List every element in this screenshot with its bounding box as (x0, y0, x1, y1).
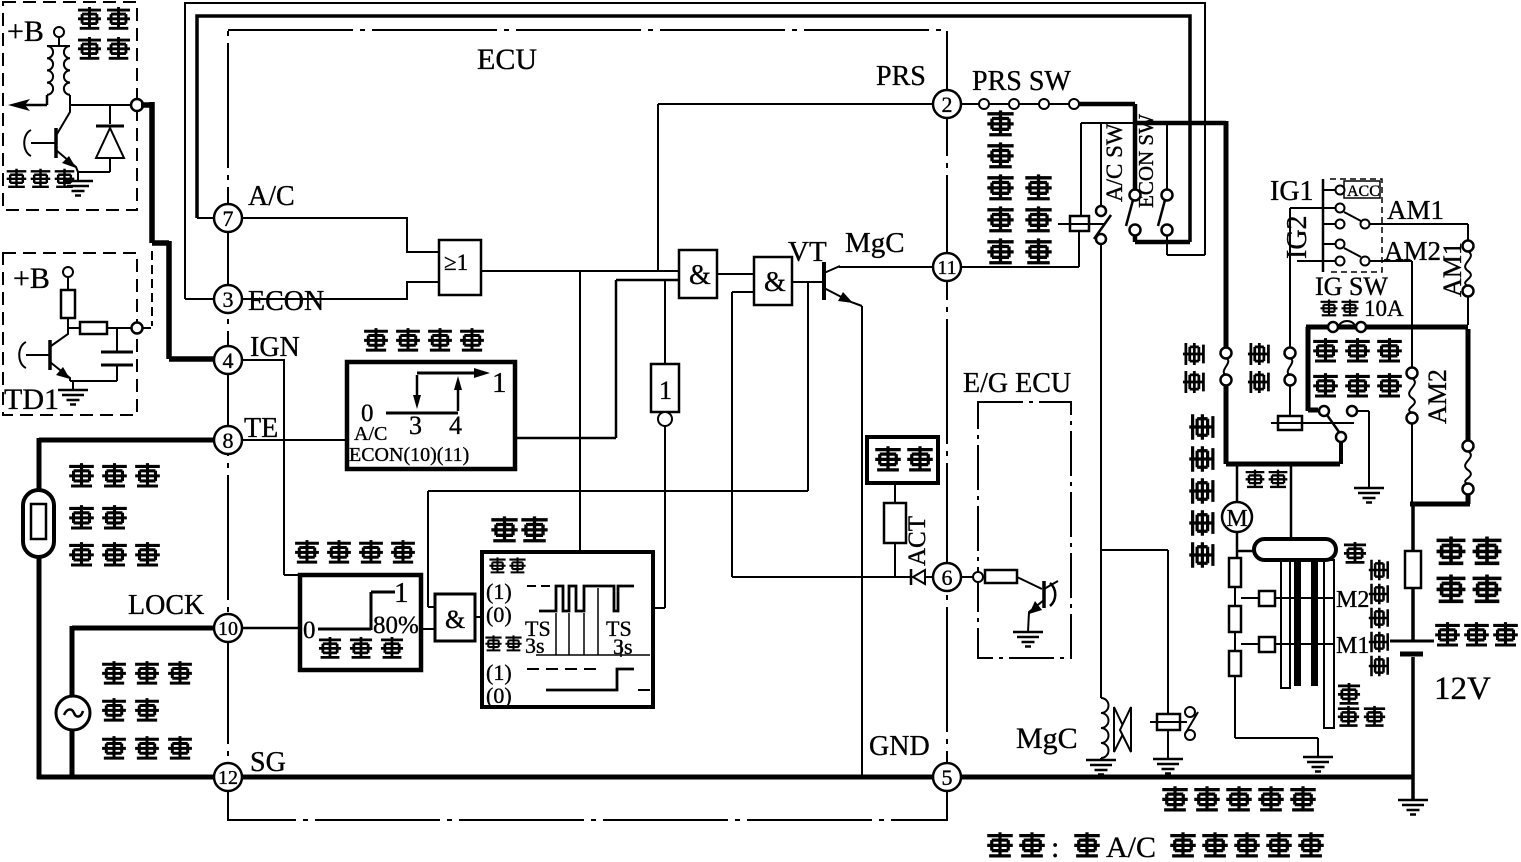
恒压 label (875, 446, 901, 470)
svg-text:≥1: ≥1 (444, 250, 468, 275)
resistor column wires (1235, 587, 1318, 757)
输入 label (489, 557, 505, 572)
Q2 emitter arrowhead (56, 367, 70, 379)
Q1 emitter arrowhead (62, 156, 76, 168)
IG fuse circles (1328, 322, 1338, 332)
svg-text:IG2: IG2 (1282, 215, 1313, 259)
wire AM2 link down (1411, 423, 1413, 504)
pin 12 circle (214, 763, 242, 791)
M2 tap wire and contact (1241, 597, 1333, 599)
blower switch bar 2 (1294, 560, 1301, 686)
IG switch stubs (1290, 190, 1335, 261)
heater relay feed wire (1289, 208, 1291, 348)
wire heater fuse to relay coil (1289, 386, 1291, 416)
Q1 collector (57, 105, 70, 134)
svg-text:(1): (1) (486, 579, 512, 604)
wire branch VT base down to 491 rail (807, 282, 809, 491)
clutch bowtie symbol right (1120, 707, 1131, 752)
ignition coil unit dashed box (3, 2, 137, 210)
svg-text:1: 1 (394, 577, 409, 609)
继电器 label (heater) (1313, 373, 1338, 397)
compressor speed sensor circle (56, 696, 90, 730)
svg-text:(0): (0) (486, 602, 512, 627)
传感器 label (speed) (102, 736, 126, 759)
电磁离合器 vertical label (987, 110, 1013, 135)
风扇继电器 label (1162, 786, 1188, 810)
svg-text:AM1: AM1 (1387, 195, 1444, 225)
NOT gate U4 box (651, 364, 679, 412)
battery plate short (1400, 652, 1423, 657)
clutch bowtie symbol left (1114, 707, 1125, 752)
wire pin6 ACT line (732, 576, 933, 578)
wire R2 to edge node (107, 327, 131, 329)
wire AND2 output to VT base (792, 281, 823, 283)
D1 cathode bar (96, 125, 124, 128)
svg-text::: : (1051, 831, 1059, 862)
pin 5 circle (933, 763, 961, 791)
Q1 emitter with arrow (56, 150, 78, 172)
reset time markers (556, 588, 621, 657)
heater relay contact wire (1308, 408, 1318, 413)
Q3 emitter (1028, 600, 1044, 632)
svg-text:IG1: IG1 (1270, 176, 1314, 207)
svg-text:12: 12 (218, 767, 238, 789)
blower motor M circle (1222, 502, 1252, 532)
ground (fan relay) (1153, 759, 1183, 774)
Q1 base hook (24, 130, 31, 156)
evaporator sensor inner element (31, 504, 46, 539)
pin 10 circle (214, 614, 242, 642)
svg-text:11: 11 (937, 257, 956, 279)
thick wire fuse to blower rail (1226, 386, 1340, 464)
加热器 label (1313, 338, 1338, 362)
低 label (1338, 683, 1360, 704)
reset input leading dashes (527, 585, 551, 587)
熔丝10A label (1321, 300, 1338, 316)
wire coil to collector node (70, 95, 131, 105)
spark output arrow wire (16, 95, 47, 105)
slip-detect box (300, 575, 421, 670)
wire feed to clutch relay coil (1080, 123, 1082, 216)
spark arrowhead (8, 99, 30, 111)
flyback diode D1 (109, 105, 111, 172)
svg-text:(0): (0) (486, 683, 512, 708)
heater fuse circles (1285, 348, 1296, 359)
svg-text:ACC: ACC (1347, 183, 1380, 200)
鼓风机开关 vertical label rotated (1369, 560, 1389, 580)
wire main fuse to battery (1411, 588, 1415, 640)
temp hysteresis down arrow (416, 375, 419, 398)
wire outer-rect to pin3 (185, 298, 214, 300)
diode D2 bar (910, 569, 913, 585)
ECU second enclosure rectangle (thick) (197, 16, 1190, 242)
IG fuse arc (1338, 321, 1356, 327)
reset input waveform (539, 586, 634, 611)
thick wire PRS SW to A/C SW (1079, 104, 1135, 190)
svg-text:SG: SG (250, 747, 286, 778)
svg-text:GND: GND (869, 731, 930, 762)
M1 tap wire and contact (1241, 643, 1333, 645)
svg-text:ECON(10)(11): ECON(10)(11) (349, 444, 469, 466)
reset output trailing dash (638, 689, 650, 691)
node circle at TD1 box edge (132, 323, 143, 334)
Q2 base hook (19, 342, 26, 368)
wire AND1 to AND2 (717, 273, 754, 275)
clutch relay blade (1094, 215, 1111, 239)
blower switch bar 3 (1311, 560, 1318, 686)
wire heater relay right contact to ground (1357, 411, 1369, 488)
AND gate U5 box (435, 594, 475, 641)
wire battery to ground (1411, 657, 1415, 800)
TD1 transistor Q2 bar (48, 340, 52, 370)
svg-text:AM1: AM1 (1438, 242, 1467, 297)
wire AM1 link to fuse rail (1467, 296, 1469, 325)
svg-text:0: 0 (303, 617, 316, 644)
wire AND3 to reset box (475, 616, 482, 618)
温度 label (69, 505, 94, 529)
resistor R1 vertical (61, 290, 75, 318)
E/G base resistor (985, 570, 1017, 583)
打开 label (1246, 470, 1265, 488)
VT emitter arrowhead (838, 292, 853, 303)
+B terminal circle (TD1) (63, 267, 73, 277)
reset box (482, 552, 653, 707)
transistor VT bar (822, 262, 826, 300)
svg-text:MgC: MgC (845, 227, 905, 259)
link2 fusible wave (1465, 451, 1471, 484)
capacitor C1 bottom plate (101, 364, 133, 367)
ground (blower switch) (1303, 757, 1333, 772)
wire pin11 to clutch relay coil (961, 231, 1079, 267)
wire pin3 to OR gate (242, 282, 439, 299)
svg-text:1: 1 (492, 367, 507, 399)
wire pin6 to E/G input (961, 576, 973, 578)
wire terminal to resistor (67, 277, 69, 290)
pin 6 circle (933, 563, 961, 591)
svg-text:TD1: TD1 (4, 383, 59, 416)
打滑检测 title (295, 540, 319, 563)
svg-text:+B: +B (13, 262, 50, 295)
wire pin10 to slip-detect box (242, 627, 300, 630)
wire R1 to node (68, 318, 80, 328)
ground (E/G ECU) (1013, 632, 1043, 647)
Q3 emitter arrowhead (1029, 601, 1042, 614)
svg-text:M2: M2 (1336, 587, 1369, 613)
压缩机 label (102, 661, 126, 684)
temp hysteresis top line (417, 372, 478, 375)
node circle at ignition box edge (131, 99, 143, 111)
svg-text:3s: 3s (613, 634, 633, 659)
reset output dashes high (527, 668, 600, 670)
svg-text:10: 10 (218, 618, 238, 640)
thick SG ground bus (37, 775, 1413, 780)
blower resistor 1 (1229, 558, 1241, 587)
wire IG to AM2 link (1370, 261, 1412, 368)
wire resistor to Q3 base (1017, 577, 1042, 589)
实例 caption line (987, 832, 1013, 856)
点火器 label (7, 169, 27, 188)
wire slip box to AND3 (421, 628, 435, 630)
blower switch pill (1254, 539, 1336, 560)
wire fan relay coil to ground (1167, 730, 1169, 759)
A/C SW contact circles (1130, 190, 1141, 201)
svg-text:A/C SW: A/C SW (1102, 123, 1127, 202)
blower switch bar 4 (1324, 560, 1334, 728)
speed sensor tilde (64, 709, 83, 716)
AM2 fusible link circles (1407, 368, 1418, 379)
svg-text:+B: +B (7, 15, 44, 48)
ACC box (1344, 181, 1380, 198)
svg-text:&: & (764, 267, 786, 298)
pin 3 circle (214, 285, 242, 313)
wire TE into temp box (242, 439, 347, 441)
+B terminal circle (54, 27, 64, 37)
PRS SW wire segments (961, 103, 1069, 105)
pin 4 circle (214, 346, 242, 374)
IG switch contact circles left (1336, 186, 1345, 195)
IG switch bracket (1322, 179, 1325, 272)
传感器 label (69, 542, 94, 566)
link2 fusible circles (1463, 441, 1474, 452)
ECON SW contact circles (1162, 190, 1173, 201)
ground (igniter) (63, 181, 93, 196)
svg-text:ECU: ECU (477, 43, 537, 76)
AM2 fusible link wave (1409, 378, 1415, 413)
svg-text:PRS SW: PRS SW (972, 66, 1071, 97)
thick TE wire pin8 to evaporator sensor (39, 438, 215, 779)
heater relay blade (1327, 415, 1339, 432)
wire to main fuse (1411, 504, 1415, 551)
battery plate long (1390, 640, 1434, 643)
thick heater relay frame (1306, 327, 1468, 411)
点火线圈 label (78, 7, 101, 29)
wire ECON SW feed (1166, 123, 1168, 189)
VT emitter (824, 288, 862, 306)
OR gate U1 box (439, 240, 481, 295)
thick +B feed wire to IGN pin (141, 102, 215, 359)
resistor ACT (884, 503, 906, 543)
TD1 unit dashed box (3, 253, 137, 415)
ignition coil primary winding (47, 46, 53, 95)
AND gate U2 box (679, 250, 717, 298)
wire emitter to ground with cap join (70, 381, 117, 390)
wire PRS pin2 to logic (658, 104, 933, 271)
diode D2 triangle (913, 570, 925, 584)
temp hysteresis right arrowhead (474, 368, 490, 378)
MgC clutch coil (1101, 698, 1109, 760)
wire rail to motor (1236, 464, 1239, 502)
ground (battery) (1398, 800, 1428, 815)
reset output waveform (546, 669, 634, 690)
svg-text:ECON: ECON (248, 286, 324, 317)
svg-text:3: 3 (409, 411, 422, 440)
capacitor C1 top plate (101, 351, 133, 354)
IG switch blade AM1 (1344, 212, 1361, 221)
ECU outer enclosure rectangle (185, 3, 1205, 299)
svg-text:7: 7 (223, 206, 234, 231)
NOT gate bubble (658, 412, 672, 426)
E/G input terminal circle (973, 572, 983, 582)
svg-text:A/C: A/C (248, 181, 295, 212)
dashed tap wire to TD1 node (142, 251, 152, 328)
fan relay blade (1185, 712, 1198, 734)
wire branch down to reset box (579, 271, 581, 552)
鼓风电动机 vertical label rotated (1189, 414, 1213, 440)
svg-text:AM2: AM2 (1423, 369, 1452, 424)
thick blower feed wire (1224, 121, 1229, 348)
slip step waveform (318, 592, 395, 630)
reset axis line (536, 654, 650, 656)
wire clutch relay top contact up (1100, 123, 1102, 206)
wire heater relay output to blower rail (1339, 442, 1343, 464)
wire pin4 to slip-detect (242, 360, 300, 575)
svg-text:A/C: A/C (1106, 831, 1156, 862)
svg-text:&: & (689, 260, 711, 291)
horizontal rail y491 (428, 490, 808, 492)
svg-text:M1: M1 (1336, 633, 1369, 659)
打滑率 label (319, 637, 341, 658)
wire 恒压 to ACT resistor (894, 483, 896, 503)
wire rail to switch pill (1290, 464, 1293, 539)
Q2 emitter (50, 362, 70, 381)
svg-text:E/G ECU: E/G ECU (963, 368, 1071, 399)
wire ACT line to AND2 input (732, 292, 754, 577)
accessory power line y123 (1081, 122, 1135, 124)
ECON SW blade (1158, 200, 1165, 226)
wire A/C SW output to ECU A/C rect (1135, 235, 1190, 242)
pin 11 circle (933, 253, 961, 281)
fan relay coil line (1150, 721, 1187, 723)
clutch relay coil line (1058, 223, 1104, 225)
heater relay contact circles (1319, 406, 1329, 416)
resistor R2 horizontal (80, 322, 107, 334)
wire clutch relay bottom contact down to MgC (1100, 244, 1102, 698)
svg-text:ACT: ACT (904, 516, 931, 566)
ECU dash-dot boundary box (228, 30, 947, 820)
wire from +B terminal (47, 37, 70, 46)
svg-text:10A: 10A (1364, 296, 1404, 321)
clutch relay coil rect (1070, 216, 1089, 231)
fan relay contact circles (1185, 707, 1195, 717)
blower resistor 3 (1229, 651, 1241, 676)
svg-text:80%: 80% (373, 612, 419, 639)
PRS SW contact circles (979, 99, 989, 109)
蓄电池 label (1435, 622, 1460, 646)
temperature-detect box (347, 362, 515, 469)
VT collector (824, 266, 840, 273)
熔丝 label (blower fuse) rotated (1183, 343, 1204, 365)
evaporator temp sensor capsule (23, 490, 54, 557)
温度检测 title (364, 328, 388, 351)
输出 label (485, 635, 501, 650)
E/G transistor Q3 bar (1042, 581, 1046, 608)
thick LOCK wire pin10 to speed sensor (72, 626, 215, 779)
主熔 label (1437, 537, 1466, 565)
wire OR output to AND1 (481, 270, 679, 272)
AM1 fusible link wave (1465, 251, 1471, 286)
svg-text:12V: 12V (1434, 671, 1491, 707)
恒压 box (867, 437, 938, 483)
复位 title (491, 516, 517, 541)
wire second-rect to pin7 (197, 217, 214, 219)
capacitor wires (116, 328, 118, 381)
AND gate U3 box (754, 257, 792, 305)
A/C SW blade (1126, 200, 1133, 226)
Q3 collector (1044, 581, 1058, 589)
蒸发器 label (69, 463, 94, 487)
wire VT emitter down to ground bus (861, 306, 863, 777)
svg-text:5: 5 (942, 765, 953, 790)
heater fuse wavy link (1288, 358, 1293, 375)
main fuse rect (1405, 551, 1421, 588)
ground (MgC) (1086, 760, 1116, 775)
heater relay coil rect (1278, 416, 1302, 430)
wire NOT input from reset box (653, 426, 665, 608)
thick wire link2 to battery rail (1410, 494, 1470, 504)
wire rail down to slip AND input (428, 491, 435, 607)
svg-text:6: 6 (942, 565, 953, 590)
svg-text:PRS: PRS (876, 61, 926, 92)
Q3 arc (1050, 583, 1055, 606)
clutch relay contact circles (1096, 206, 1106, 216)
pin 7 circle (214, 204, 242, 232)
blower resistor 2 (1229, 606, 1241, 632)
wire IG to AM1 link (1370, 224, 1468, 241)
断器 label (1437, 575, 1466, 603)
pin 2 circle (933, 90, 961, 118)
blower fuse wavy link (1224, 358, 1229, 375)
wire diode to ground (78, 172, 110, 181)
IG switch blade AM2 (1344, 248, 1361, 257)
pin 8 circle (214, 426, 242, 454)
继电器 vertical label (1025, 174, 1051, 199)
igniter transistor Q1 bar (54, 128, 58, 158)
Q1 base wire (31, 142, 56, 144)
wire NOT output up to AND1 input (664, 280, 666, 364)
svg-text:IGN: IGN (250, 332, 300, 363)
wire pin7 to OR gate (242, 218, 439, 252)
svg-text:A/C: A/C (354, 423, 387, 445)
thick wire fuse rail down to link2 (1466, 329, 1471, 441)
svg-text:1: 1 (659, 376, 672, 405)
wire MgC branch to fan relay (1101, 550, 1168, 714)
熔丝 label (heater fuse) rotated (1248, 343, 1269, 365)
转速 label (102, 698, 126, 721)
高 label (1344, 542, 1366, 563)
heater relay coil line (1271, 422, 1354, 424)
D1 triangle (96, 128, 124, 158)
wire ECON SW output to ECU ECON rect (1167, 235, 1205, 255)
ground (TD1) (58, 390, 88, 405)
ignition coil secondary winding (64, 46, 70, 95)
wire ACT resistor to pin6 line (894, 543, 896, 577)
svg-text:3s: 3s (525, 633, 545, 658)
ground (heater relay) (1354, 488, 1384, 503)
blower fuse circles (1221, 348, 1232, 359)
IG switch dashed box (1330, 179, 1382, 272)
IG switch contact circles right (1361, 220, 1370, 229)
wire VT collector to pin11 MgC (839, 266, 933, 268)
Q2 collector (51, 328, 68, 346)
svg-text:4: 4 (449, 411, 462, 440)
svg-text:2: 2 (942, 92, 953, 117)
svg-text:4: 4 (223, 348, 234, 373)
wire motor to resistor column (1237, 532, 1254, 558)
svg-text:8: 8 (223, 428, 234, 453)
svg-text:MgC: MgC (1016, 722, 1078, 755)
svg-text:3: 3 (223, 287, 234, 312)
wire temp-box output to AND1 (515, 280, 679, 438)
